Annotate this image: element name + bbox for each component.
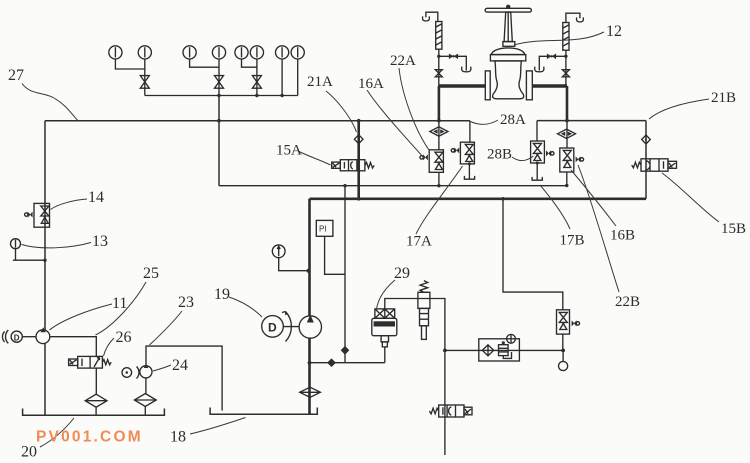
- wire gauge4 drop: [218, 59, 220, 96]
- gate valve 12 stem collar: [503, 42, 515, 47]
- svg-text:25: 25: [143, 265, 159, 282]
- suction filter (pump 24): [134, 394, 156, 407]
- gate valve 12 body: [493, 61, 524, 99]
- coupling arc 24: [137, 367, 139, 379]
- wire 22B feed from collector: [503, 199, 563, 310]
- check valve 21B: [642, 135, 651, 144]
- leader 25: [96, 282, 147, 335]
- leader 12: [514, 32, 604, 45]
- wire manifold B top: [537, 120, 646, 122]
- wire relief valve branch: [385, 299, 445, 456]
- check valve (unload line): [327, 358, 336, 367]
- svg-text:12: 12: [606, 23, 622, 40]
- wire 15A branch drop: [357, 122, 360, 199]
- svg-text:16A: 16A: [358, 76, 384, 92]
- wire bypass branch x344: [344, 186, 346, 363]
- return filter (valve26 line): [85, 394, 107, 407]
- gate valve 12 left flange: [485, 71, 490, 100]
- svg-text:18: 18: [170, 429, 186, 446]
- wire right test branch: [539, 56, 566, 70]
- wire filter to tank 20: [95, 407, 97, 415]
- wire valve B inner bottom to return: [566, 172, 568, 186]
- wire gauge 13 to riser: [13, 249, 45, 261]
- svg-text:21A: 21A: [307, 74, 333, 90]
- svg-text:PI: PI: [319, 225, 327, 234]
- filter-regulator box: [479, 339, 520, 361]
- leader 28A: [471, 120, 499, 124]
- left spring hanger hook: [422, 12, 437, 21]
- svg-text:11: 11: [112, 295, 127, 312]
- wire left pipe drop: [438, 86, 441, 121]
- solenoid drain valve (bottom): [429, 405, 472, 417]
- leader 24: [153, 365, 171, 371]
- wire pump 11 drain to tank 20: [44, 343, 46, 415]
- wire valve A inner drop to assembly: [438, 121, 440, 150]
- pressure gauge PG6: [250, 46, 263, 59]
- solenoid valve 26: [69, 356, 112, 368]
- leader 22A: [399, 68, 429, 150]
- wire gate valve left pipe: [439, 84, 485, 87]
- wire gauge8 drop: [297, 59, 299, 96]
- flow coupling A: [430, 127, 448, 136]
- pressure gauge PG3: [183, 46, 196, 59]
- node right branch junction: [564, 55, 567, 58]
- svg-text:29: 29: [394, 265, 410, 282]
- check valve (bypass upper): [341, 346, 350, 355]
- accumulator 29: [372, 309, 397, 347]
- electric motor D (pump 11): [11, 331, 22, 342]
- wire filter 24 to tank: [144, 407, 146, 416]
- svg-text:21B: 21B: [711, 90, 736, 106]
- drain port circle: [559, 361, 568, 370]
- pressure gauge PG8: [291, 46, 304, 59]
- leader 15B: [662, 173, 719, 222]
- circulating pump 24: [140, 364, 152, 378]
- svg-text:20: 20: [21, 444, 37, 461]
- wire gate valve right pipe: [532, 84, 567, 87]
- wire 28B drop: [536, 121, 538, 141]
- svg-text:23: 23: [178, 294, 194, 311]
- flow coupling B: [558, 129, 576, 138]
- wire 22B to filter line: [562, 334, 564, 350]
- svg-text:PV001.COM: PV001.COM: [36, 429, 143, 446]
- gauge shutoff valve V1: [140, 76, 149, 89]
- wire left rotameter to pipe: [438, 49, 440, 86]
- wire 28A corner drop: [469, 121, 471, 143]
- leader 26: [104, 338, 115, 356]
- svg-text:15B: 15B: [721, 221, 746, 237]
- wire right pipe drop: [566, 86, 569, 121]
- wire gauge3 to gauge4: [190, 59, 219, 67]
- left spring line valve: [435, 70, 442, 77]
- svg-text:22A: 22A: [390, 53, 416, 69]
- wire valve A inner bottom to return: [438, 172, 440, 185]
- hydraulic pump 19: [299, 315, 321, 339]
- wire gauge5 to gauge6: [242, 59, 257, 67]
- mini gauge on filter box: [507, 334, 516, 343]
- motor coupling arcs: [2, 330, 8, 343]
- electric motor D (pump19): [262, 316, 284, 338]
- wire gauge1 to gauge2: [115, 59, 144, 69]
- wire left test branch: [439, 56, 467, 70]
- svg-text:26: 26: [116, 329, 132, 346]
- wire motor11 shaft: [22, 336, 36, 338]
- leader 19: [229, 297, 262, 317]
- pressure gauge (pump outlet): [272, 245, 285, 258]
- svg-text:16B: 16B: [610, 228, 635, 244]
- wire right rotameter to pipe: [565, 50, 567, 86]
- wire gauge to riser: [279, 258, 310, 271]
- left branch mini valve: [449, 54, 458, 60]
- wire main supply line 27: [45, 120, 470, 122]
- junction dots on bus: [217, 94, 220, 97]
- gate valve 12 handwheel: [485, 8, 531, 12]
- wire valve B inner drop: [566, 121, 568, 148]
- pressure gauge PG2: [138, 46, 151, 59]
- solenoid valve 15A: [332, 160, 375, 171]
- suction filter (pump 19): [300, 387, 321, 397]
- node 22B junction: [561, 349, 565, 353]
- svg-text:28A: 28A: [500, 112, 526, 128]
- wire gauge7 drop: [281, 59, 283, 96]
- wire 21B riser: [645, 121, 647, 199]
- svg-text:24: 24: [172, 357, 188, 374]
- gate valve 12 bonnet flange: [490, 55, 525, 61]
- wire drain port stub: [562, 350, 564, 361]
- gate valve 12 right flange: [526, 71, 532, 100]
- gate valve 12 stem knob: [506, 5, 510, 9]
- leader 17B: [540, 185, 570, 229]
- pressure gauge 13: [11, 239, 21, 249]
- svg-text:22B: 22B: [615, 294, 640, 310]
- wire PI to riser: [325, 236, 345, 274]
- svg-text:15A: 15A: [276, 143, 302, 159]
- right spring line valve: [562, 70, 569, 77]
- pressure gauge PG4: [212, 46, 225, 59]
- svg-text:17A: 17A: [406, 234, 432, 250]
- leader 18: [190, 418, 246, 435]
- right branch mini valve: [547, 54, 556, 60]
- solenoid valve 15B: [632, 159, 677, 171]
- gate valve 12 bonnet dome: [491, 48, 525, 55]
- left branch drain foot: [462, 67, 471, 72]
- svg-text:28B: 28B: [487, 147, 512, 163]
- leader 16A: [367, 90, 424, 158]
- gate valve 12 stem: [504, 12, 512, 41]
- node riser/unload junction: [308, 361, 312, 365]
- pressure gauge PG5: [235, 46, 248, 59]
- gauge shutoff valve V3: [252, 76, 261, 89]
- tank 18: [210, 408, 317, 415]
- leader 11: [50, 304, 113, 330]
- gauge shutoff valve V2: [215, 76, 224, 89]
- needle valve assembly 28B/17B: [531, 141, 554, 180]
- svg-text:14: 14: [88, 189, 104, 206]
- wire motor-pump shaft: [283, 326, 299, 328]
- pressure gauge PG1: [109, 46, 122, 59]
- left rotameter tube: [436, 22, 442, 50]
- needle valve assembly 16A/22A: [420, 150, 444, 173]
- pressure transmitter PI box: [316, 220, 333, 236]
- leader 13: [22, 243, 92, 248]
- hydraulic pump 11: [36, 327, 50, 343]
- wire filter box line: [445, 349, 563, 351]
- wire manifold drop to return line: [218, 96, 220, 186]
- svg-text:13: 13: [92, 233, 108, 250]
- svg-text:D: D: [268, 321, 277, 335]
- leader 21A: [326, 91, 357, 132]
- right spring hanger hook: [566, 13, 584, 22]
- check valve 21A: [354, 135, 363, 144]
- sampling valve 14: [25, 203, 50, 227]
- leader 23: [150, 311, 183, 345]
- leader 15A: [298, 151, 331, 165]
- leader 28B: [512, 156, 534, 161]
- wire left riser (line 27 down to pump 11): [44, 121, 46, 331]
- wire pump 24 suction: [145, 378, 147, 394]
- svg-text:D: D: [14, 334, 20, 343]
- node gauge13 junction: [43, 259, 46, 262]
- drive motor (pump 24): [122, 368, 132, 378]
- wire pump 11 outlet: [50, 337, 97, 357]
- leader 17A: [416, 166, 463, 234]
- wire gauge6 drop: [256, 59, 258, 96]
- wire line 23 (pump24 to tank 18): [146, 346, 222, 411]
- needle valve assembly 16B/22B-top: [560, 148, 584, 172]
- wire return line (x219 to valve 16B bottom): [219, 185, 567, 187]
- wire gauge2 drop: [144, 59, 146, 96]
- leader 29: [377, 280, 396, 309]
- right rotameter tube: [563, 23, 569, 51]
- leader 22B: [578, 165, 619, 292]
- svg-text:19: 19: [214, 286, 230, 303]
- node relief/filter junction: [443, 349, 447, 353]
- needle valve 22B: [557, 310, 580, 334]
- pressure gauge PG7: [276, 46, 289, 59]
- leader 21B: [649, 99, 709, 119]
- wire gauge manifold bus: [145, 95, 298, 97]
- leader 14: [51, 199, 88, 210]
- wire thick collector line: [310, 198, 647, 201]
- right branch drain foot: [535, 67, 544, 72]
- wire accumulator stem: [384, 347, 386, 363]
- node junction line27 x219: [217, 119, 221, 123]
- svg-text:27: 27: [8, 67, 24, 84]
- svg-text:17B: 17B: [560, 233, 585, 249]
- leader 20: [40, 418, 74, 447]
- wire valve 26 to filter: [95, 368, 97, 394]
- relief valve 29-line: [418, 281, 430, 340]
- rotation arc: [282, 312, 291, 342]
- leader 27: [22, 83, 78, 120]
- node left branch junction: [437, 55, 440, 58]
- leader 16B: [571, 170, 616, 226]
- tank 20: [23, 409, 165, 416]
- junction dots main lines: [357, 119, 361, 123]
- wire pump 19 riser thick: [308, 199, 311, 316]
- needle valve assembly 28A/17A: [451, 142, 474, 179]
- wire pump 19 suction thick: [308, 338, 311, 414]
- wire unload cross line y362.7: [310, 362, 385, 364]
